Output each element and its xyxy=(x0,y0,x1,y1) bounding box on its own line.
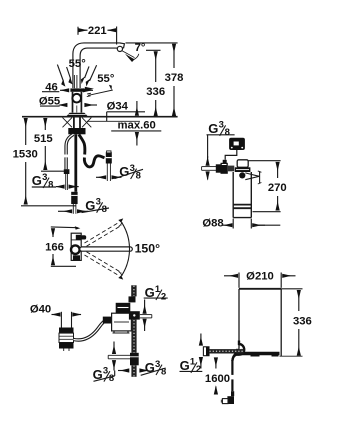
svg-text:1530: 1530 xyxy=(13,148,38,160)
dimension diameter 210 arrows xyxy=(224,275,238,277)
boiler outline xyxy=(239,288,281,290)
svg-text:55°: 55° xyxy=(97,73,115,85)
coil hose outlet pipe xyxy=(106,164,108,182)
G 3/8 coil pipe arrows xyxy=(96,176,106,178)
G 1/2 top underline xyxy=(144,297,168,299)
svg-text:55°: 55° xyxy=(69,58,87,70)
braided hose from above xyxy=(131,285,136,296)
G 3/8 label middle hose xyxy=(85,197,107,216)
svg-text:Ø34: Ø34 xyxy=(107,100,129,112)
faucet joint circle xyxy=(72,94,81,103)
faucet aerator ring xyxy=(117,46,122,51)
filter clamp knob xyxy=(239,172,245,178)
braided hose below T xyxy=(131,365,136,377)
filter inlet pipe xyxy=(202,166,216,168)
dimension diameter 34 jog xyxy=(106,112,108,122)
dimension 1600 line upper xyxy=(215,358,217,369)
svg-text:515: 515 xyxy=(34,133,53,145)
55 degree second leader arrow to lever xyxy=(85,88,92,90)
G 1/2 top arrows xyxy=(144,300,146,314)
G 3/8 bottom middle arrows xyxy=(118,370,129,372)
dimension 270 line lower xyxy=(277,196,279,210)
boiler bottom band xyxy=(241,352,280,355)
swivel bottom cap xyxy=(73,255,80,260)
svg-text:336: 336 xyxy=(146,86,165,98)
cross fitting xyxy=(129,311,140,319)
counter underside line xyxy=(87,120,140,122)
left hose threaded pipe xyxy=(65,174,67,190)
swivel spout bar xyxy=(80,247,133,251)
faucet spout inner contour xyxy=(80,48,117,88)
reference line aerator outlet xyxy=(146,49,161,51)
faucet mounting nut xyxy=(68,128,85,134)
G 1/2 bottom arrows xyxy=(200,334,202,346)
swivel 150 degree arc xyxy=(122,222,130,275)
dimension 378 line upper xyxy=(173,44,175,68)
G 3/8 left hose underline xyxy=(32,186,56,188)
dimension diameter 88 extension lines xyxy=(232,219,234,229)
left hose end fitting xyxy=(64,169,70,174)
faucet spout tip xyxy=(117,43,124,48)
dimension 46 underline xyxy=(42,91,59,93)
filter inlet valve xyxy=(216,164,221,172)
svg-text:max.60: max.60 xyxy=(118,120,156,132)
T fitting xyxy=(130,353,139,366)
filter cartridge body xyxy=(232,172,234,218)
G 3/8 label bottom left xyxy=(93,365,115,384)
G 3/8 label left hose xyxy=(32,172,54,191)
dimension 270 line upper xyxy=(277,162,279,178)
countertop line xyxy=(22,116,178,118)
G 3/8 bottom middle underline xyxy=(141,368,166,375)
svg-text:166: 166 xyxy=(45,241,64,253)
dimension 221 extension line right xyxy=(116,27,118,45)
svg-text:221: 221 xyxy=(88,25,107,37)
display cable xyxy=(225,150,237,160)
braided hose down from cross xyxy=(131,320,136,353)
55 degree second tick marks xyxy=(87,92,91,95)
dimension 336 boiler line upper xyxy=(298,290,300,311)
faucet lever stem lines xyxy=(73,75,75,88)
dimension 1530 line lower xyxy=(25,162,27,204)
55 degree right outer ray xyxy=(90,65,97,81)
boiler top extension lines xyxy=(238,273,240,288)
faucet shank below counter xyxy=(73,118,75,129)
svg-text:G: G xyxy=(32,173,42,188)
dimension 1530 bottom reference line xyxy=(21,205,76,207)
faucet spout outer contour xyxy=(73,43,119,88)
dimension 46 left arrow xyxy=(60,89,69,91)
drain hose elbow plug xyxy=(227,396,234,404)
svg-text:270: 270 xyxy=(268,182,287,194)
horizontal pipe from T xyxy=(108,354,130,356)
faucet escutcheon base xyxy=(66,113,88,117)
G 3/8 middle hose arrows xyxy=(58,210,72,212)
dimension diameter 88 arrows xyxy=(222,224,232,226)
G 3/8 middle hose underline xyxy=(82,208,110,213)
dimension 336 boiler line lower xyxy=(298,329,300,356)
G 3/8 coil pipe underline xyxy=(115,169,144,178)
dimension 1600 line lower xyxy=(215,387,217,395)
55 degree left outer ray xyxy=(57,65,63,82)
dimension 221 line left arrow xyxy=(79,29,88,31)
floor line xyxy=(280,355,303,357)
dimension 378 line lower xyxy=(173,86,175,116)
swivel dashed position lower xyxy=(85,255,120,276)
dimension 166 bottom reference line xyxy=(51,265,76,267)
dimension 336 boiler top reference xyxy=(281,288,302,290)
G 3/8 bottom left arrows xyxy=(113,342,115,354)
middle supply hose xyxy=(74,134,77,192)
svg-text:Ø40: Ø40 xyxy=(30,304,51,316)
svg-text:Ø210: Ø210 xyxy=(246,271,274,283)
digital display unit xyxy=(229,138,245,150)
boiler supply braided hose xyxy=(209,349,244,353)
55 degree second slanted line xyxy=(88,90,113,95)
middle hose end fitting xyxy=(71,192,77,204)
svg-text:8: 8 xyxy=(48,179,53,190)
dimension diameter 55 underline xyxy=(40,105,60,107)
faucet body top ring xyxy=(70,88,83,91)
G 3/8 label bottom middle xyxy=(145,359,167,378)
dimension 166 top reference line xyxy=(51,226,78,229)
coil hose elbow valve xyxy=(106,152,112,163)
G 3/8 filter leader and down arrow xyxy=(207,135,209,158)
G 3/8 bottom left leader xyxy=(94,376,115,381)
drain pipe coupler xyxy=(59,328,74,334)
dimension 166 line upper xyxy=(52,228,54,237)
coiled hose xyxy=(79,134,85,154)
55 degree right inner ray xyxy=(85,66,89,78)
G 3/8 filter up arrow xyxy=(207,172,209,180)
svg-text:G: G xyxy=(180,358,190,373)
counter hatch right xyxy=(82,118,91,128)
connection hose from drain to unit xyxy=(74,320,107,340)
svg-text:7°: 7° xyxy=(135,42,146,54)
svg-text:G: G xyxy=(208,121,218,136)
left supply hose xyxy=(66,134,73,154)
G 3/8 filter underline xyxy=(207,134,235,136)
stub pipe right xyxy=(140,314,152,316)
safety unit top elbow xyxy=(116,303,131,313)
svg-text:150°: 150° xyxy=(135,242,161,256)
svg-text:8: 8 xyxy=(225,127,230,138)
G 1/2 label top xyxy=(145,284,167,303)
7 degree arc arrow xyxy=(122,51,135,58)
filter clamp lever xyxy=(245,173,259,180)
filter cartridge bands xyxy=(233,204,251,206)
dimension 46 right arrow xyxy=(83,89,93,91)
swivel body outline xyxy=(71,233,81,260)
svg-text:Ø55: Ø55 xyxy=(39,95,60,107)
dimension 1530 line upper xyxy=(25,118,27,145)
dimension 515 line lower xyxy=(44,146,46,170)
55 degree left inner ray xyxy=(67,67,71,79)
svg-text:Ø88: Ø88 xyxy=(202,217,223,229)
dimension 336 line upper xyxy=(155,51,157,82)
G 3/8 label coil pipe xyxy=(119,163,141,182)
boiler supply hose end fitting xyxy=(203,347,209,356)
G 1/2 bottom underline xyxy=(180,370,203,372)
dimension diameter 55 left arrow xyxy=(60,104,68,106)
reference line spout top xyxy=(126,42,178,44)
G 1/2 label bottom xyxy=(180,357,202,376)
dimension 270 top reference line xyxy=(248,160,281,162)
svg-text:8: 8 xyxy=(109,373,114,384)
filter head xyxy=(235,167,251,172)
safety unit box xyxy=(112,313,132,331)
dimension diameter 55 right arrow xyxy=(85,104,97,106)
svg-text:378: 378 xyxy=(165,72,184,84)
svg-text:1600: 1600 xyxy=(205,373,230,385)
swivel pivot ring xyxy=(71,245,80,254)
dimension 515 line upper xyxy=(44,118,46,130)
svg-text:336: 336 xyxy=(293,316,312,328)
max 60 up arrow xyxy=(136,132,138,145)
dimension 221 extension line left xyxy=(77,27,79,35)
swivel lever tab xyxy=(81,235,86,239)
svg-text:2: 2 xyxy=(161,291,166,302)
drain pipe xyxy=(60,312,62,328)
filter head cap xyxy=(237,160,248,168)
safety unit inlet connector xyxy=(103,317,112,324)
dimension 166 line lower xyxy=(52,254,54,265)
55 degree second small arrow xyxy=(109,85,112,91)
dimension 515 bottom reference line xyxy=(41,170,64,172)
G 3/8 label filter inlet xyxy=(208,120,230,139)
max 60 underside line xyxy=(111,130,161,132)
faucet body tube xyxy=(72,92,74,113)
boiler hose elbow down xyxy=(232,353,236,361)
boiler corner foot hook xyxy=(233,341,245,361)
swivel dashed position upper xyxy=(85,222,120,243)
counter hatch left xyxy=(63,118,73,128)
dimension 336 line lower xyxy=(155,100,157,116)
dimension diameter 40 arrows xyxy=(52,314,61,316)
boiler drain hose vertical xyxy=(231,360,233,375)
dimension 270 bottom reference line xyxy=(253,211,281,213)
dimension diameter 34 underline xyxy=(107,111,145,113)
G 3/8 left hose arrows xyxy=(56,186,64,188)
max 60 down arrow xyxy=(136,101,138,116)
middle hose threaded pipe xyxy=(72,204,74,214)
safety unit top square xyxy=(129,296,136,302)
dimension 221 line right arrow xyxy=(108,29,117,31)
